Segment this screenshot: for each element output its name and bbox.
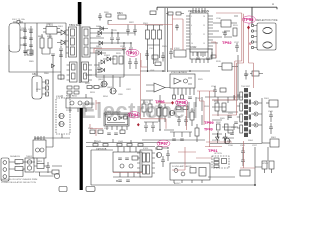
bridge wires: [57, 23, 66, 58]
red wiring layer: [90, 13, 255, 173]
wire x31: [30, 26, 32, 56]
resistor R852: [15, 167, 23, 171]
red wire y128 left: [90, 124, 103, 136]
mid IC950 box: [104, 111, 129, 131]
diode D808: [98, 51, 102, 55]
clutter caps mid: [128, 58, 138, 69]
svg-text:IC902: IC902: [190, 46, 197, 49]
svg-text:22: 22: [203, 34, 205, 36]
svg-text:AUDIO: AUDIO: [174, 182, 181, 185]
TP97 balloon: [157, 140, 170, 147]
svg-text:IC903: IC903: [174, 48, 180, 50]
wire x53 to relay: [46, 138, 53, 147]
wire x42 x50 stubs: [42, 34, 50, 54]
red wire TP93 run: [94, 48, 125, 53]
FBT right rail: [261, 98, 263, 143]
posistor TH801: [25, 158, 34, 172]
red wire CRT inner: [113, 172, 142, 174]
resistor R825: [87, 86, 103, 89]
svg-text:7: 7: [191, 34, 192, 36]
degauss connector P801: [1, 158, 9, 181]
tiny text block bottom left: [1, 178, 38, 184]
AV box: [170, 163, 210, 183]
wire y72 mid: [140, 70, 210, 72]
regulator pin parts: [173, 95, 192, 99]
choke LF801 box: [43, 24, 60, 35]
svg-text:25: 25: [203, 25, 205, 27]
transistor Q802: [59, 121, 65, 126]
FBT top parts: [244, 70, 263, 80]
resistor R851: [15, 160, 23, 164]
capacitor C805: [28, 29, 34, 32]
diode D952: [224, 137, 228, 140]
red wire TP92 stub: [211, 42, 216, 58]
wire y25 cluster: [145, 25, 163, 45]
wire stubs d951: [217, 133, 225, 143]
transistor Q803: [101, 81, 108, 87]
capacitor C811 stubs: [42, 80, 49, 96]
svg-text:TP91: TP91: [208, 148, 218, 153]
component under caps: [240, 170, 250, 176]
wire mains top: [20, 22, 66, 24]
top parts row sound: [155, 147, 169, 150]
resistor R815: [113, 56, 117, 64]
svg-text:10: 10: [191, 43, 193, 45]
resistor R854: [52, 170, 59, 174]
TP95 balloon: [243, 16, 256, 26]
svg-text:28: 28: [203, 16, 205, 18]
wire x61: [60, 50, 62, 80]
diode D951: [216, 137, 220, 140]
capacitor C818: [129, 43, 133, 54]
svg-text:TP92: TP92: [222, 40, 232, 45]
wire top y8: [157, 7, 277, 24]
resistor R805: [24, 50, 33, 55]
svg-text:IC801: IC801: [56, 96, 62, 98]
capacitor C815: [110, 33, 114, 44]
junction y72: [162, 70, 191, 72]
wire mains neutral: [20, 30, 25, 45]
diode D806: [98, 31, 102, 35]
diode D805: [100, 27, 104, 31]
caps right bottom: [241, 147, 245, 166]
HV cap C908: [266, 100, 278, 107]
zener ZD801: [101, 60, 105, 64]
resistor R906: [154, 60, 161, 66]
red diamond TP95: [247, 26, 250, 30]
yoke connector: [256, 20, 278, 50]
svg-text:OPTION: OPTION: [214, 153, 222, 155]
capacitor C903: [161, 52, 165, 62]
capacitor C901: [169, 48, 173, 59]
relay stub wires: [37, 158, 44, 164]
svg-text:SOUND AMP LA4285: SOUND AMP LA4285: [172, 165, 192, 168]
FBT diode D901: [251, 101, 262, 105]
red diamond TP96: [137, 123, 140, 126]
resistor R820: [104, 12, 111, 17]
red wire mid band: [141, 60, 147, 67]
transistor Q851: [54, 173, 59, 178]
svg-text:DEFLECTION YOKE: DEFLECTION YOKE: [256, 20, 278, 22]
photocoupler PC801: [66, 94, 92, 112]
junction x255 y185: [254, 184, 256, 186]
wire y72 to cap: [36, 23, 38, 76]
svg-text:R821: R821: [117, 12, 123, 15]
capacitor C812: [51, 54, 55, 55]
capacitor C816: [116, 33, 120, 44]
capacitor CX803: [23, 44, 27, 45]
svg-text:C805: C805: [28, 29, 34, 31]
red wire TP98 feed: [156, 102, 171, 104]
svg-text:F801 T3.15A: F801 T3.15A: [12, 18, 25, 21]
degauss wires: [9, 158, 62, 177]
mid components between rails: [93, 139, 143, 146]
resistor R816: [119, 56, 123, 64]
wire drops transformer bottom: [96, 69, 120, 88]
svg-text:4: 4: [191, 25, 192, 27]
FBT diode D903: [251, 123, 262, 127]
svg-text:19: 19: [203, 43, 205, 45]
TP94 balloon: [128, 112, 140, 118]
svg-text:TP94: TP94: [129, 113, 140, 118]
red wire vertical x183: [173, 19, 184, 50]
capacitor CX802: [23, 37, 27, 38]
red pin ring yoke: [249, 43, 251, 45]
regulator IC901 box: [170, 71, 195, 95]
wire y140 mid right: [142, 139, 205, 141]
zener ZD802: [101, 68, 105, 72]
wire bus x25: [24, 23, 26, 56]
TP93 balloon: [126, 49, 139, 56]
amp triangle Q905: [146, 83, 170, 92]
transistor Q907: [224, 138, 231, 144]
capacitor C817: [122, 43, 126, 54]
wire y177: [208, 176, 235, 178]
red wire TP95 drop: [249, 29, 254, 88]
isolation bar bottom: [80, 108, 83, 190]
resistor R902: [152, 25, 156, 45]
secondary extra caps: [94, 21, 137, 74]
magenta test point labels: [126, 16, 256, 153]
left of FBT clutter: [212, 100, 238, 134]
svg-text:IC803: IC803: [110, 113, 116, 115]
wire y75 long: [85, 74, 140, 76]
transformer core lines: [79, 24, 81, 83]
svg-text:SP901: SP901: [262, 163, 269, 165]
svg-text:TP96: TP96: [155, 99, 165, 104]
yoke pin headers: [251, 24, 257, 48]
svg-text:RL801: RL801: [34, 138, 41, 140]
ABL resistor network: [217, 95, 239, 138]
svg-text:IC951: IC951: [143, 148, 149, 150]
red wire jungle frame: [212, 13, 244, 115]
mid band x155-168 verticals: [158, 95, 174, 131]
wire y146 mid: [86, 146, 155, 148]
transformer aux winding right: [82, 62, 93, 82]
focus block box: [262, 139, 279, 147]
red wire left mid: [96, 100, 100, 110]
wire x53 vertical: [52, 55, 54, 138]
red wire sound rails: [172, 147, 212, 170]
svg-text:C810: C810: [32, 73, 38, 76]
red wire vertical x172: [172, 15, 174, 50]
pin labels jungle: [191, 16, 205, 45]
svg-text:TP97: TP97: [158, 141, 169, 146]
title stamp box 2: [86, 187, 95, 192]
mid components row y132: [90, 130, 125, 134]
CRT inner box: [113, 147, 142, 172]
svg-text:TP95: TP95: [244, 17, 255, 22]
svg-text:R810 R811: R810 R811: [66, 96, 78, 98]
right column parts: [269, 111, 273, 134]
svg-text:R802: R802: [38, 36, 44, 38]
mid band components x142-165: [141, 100, 167, 132]
secondary rectifier wires: [94, 29, 135, 54]
svg-text:T902 FBT: T902 FBT: [241, 86, 251, 88]
CRT lower clutter: [113, 172, 141, 182]
diode D810: [52, 64, 55, 68]
CRT board big box: [91, 150, 255, 185]
transformer core bar top: [78, 2, 82, 24]
FBT secondary winding: [249, 92, 251, 134]
wire stub x62: [61, 95, 63, 138]
resistor R901: [146, 25, 150, 45]
capacitor CX804: [23, 51, 27, 52]
bus vertical pair: [165, 8, 168, 72]
resistor R807: [58, 55, 64, 79]
svg-text:POWER REGULATOR DEFLECTION: POWER REGULATOR DEFLECTION: [1, 181, 36, 184]
svg-text:1: 1: [191, 16, 192, 18]
capacitor C809: [59, 46, 63, 55]
option box rows: [214, 158, 227, 167]
degauss relay RL801: [33, 136, 46, 158]
wire y132 mid right: [196, 97, 202, 125]
svg-text:TP98: TP98: [176, 100, 187, 105]
transformer secondary winding: [82, 27, 94, 57]
svg-text:ZD801: ZD801: [104, 55, 111, 57]
resistor row under transformer: [66, 86, 79, 98]
resistor R802: [38, 36, 44, 48]
capacitor C806: [29, 38, 33, 39]
svg-text:DEGAUSS: DEGAUSS: [10, 155, 20, 158]
svg-text:IC901 KA78R09: IC901 KA78R09: [171, 71, 188, 74]
svg-text:SAMSUNG CK-5073Z CHASSIS P88M: SAMSUNG CK-5073Z CHASSIS P88M: [1, 178, 38, 181]
IC801 STR control box: [56, 98, 70, 134]
svg-text:TP49: TP49: [204, 128, 213, 132]
capacitor C808: [29, 52, 33, 53]
diode D801: [61, 30, 65, 35]
capacitor C851: [46, 162, 50, 173]
svg-text:C801: C801: [21, 28, 27, 30]
diode D809: [103, 57, 116, 61]
TP98 balloon: [175, 99, 188, 106]
sound transformer T903: [137, 150, 155, 177]
red wire y119: [141, 119, 167, 129]
transformer aux winding left: [67, 62, 78, 82]
resistor R930: [218, 55, 238, 97]
right rail x255: [254, 147, 256, 185]
filter parts x145-162: [145, 45, 159, 72]
red wire B+ top: [108, 24, 173, 26]
node junctions secondary: [111, 32, 131, 43]
dashed option box: [212, 156, 229, 168]
svg-text:LF801: LF801: [46, 24, 53, 27]
transistor Q801: [59, 113, 65, 118]
parts upper x168-186: [150, 11, 184, 31]
main filter capacitor C810: [32, 73, 42, 99]
sound IC box: [190, 46, 212, 63]
resistor R803: [47, 36, 53, 48]
transistor Q804: [110, 88, 117, 94]
control cluster box: [96, 50, 124, 77]
red diamond TP98: [171, 101, 174, 105]
resistor R821: [117, 12, 126, 19]
mid band components x168-205: [169, 106, 199, 142]
diode D807: [99, 41, 103, 45]
title stamp box 1: [59, 187, 67, 192]
svg-text:A: A: [272, 2, 274, 6]
svg-text:CRT PCB: CRT PCB: [96, 148, 107, 151]
wire y138: [35, 137, 70, 139]
clutter under jungle: [196, 52, 216, 59]
capacitor C930: [213, 86, 226, 97]
speaker terminals: [255, 147, 274, 173]
capacitor C807: [29, 45, 33, 46]
transistor Q951: [156, 152, 161, 157]
svg-text:TP99: TP99: [204, 120, 214, 125]
wire y97 top of FBT: [205, 96, 250, 98]
capacitor C814: [98, 13, 102, 21]
wire y143 mid: [86, 142, 160, 144]
caps near sound: [161, 150, 170, 167]
FBT core bars: [245, 88, 247, 137]
transformer primary winding: [66, 27, 77, 57]
resistor R903: [158, 25, 162, 45]
line filter enclosure LF801: [9, 23, 20, 52]
FBT primary winding: [237, 92, 243, 133]
clutter right of jungle: [213, 16, 239, 52]
fuse F801: [12, 18, 25, 23]
svg-text:TP93: TP93: [127, 51, 138, 56]
wire y143 lower right: [210, 143, 262, 145]
jungle IC box: [186, 8, 213, 56]
red wire bottom right: [205, 141, 255, 168]
capacitor CX801: [21, 28, 27, 31]
resistor R853: [37, 164, 44, 169]
wire y72: [9, 45, 61, 72]
svg-text:PC801: PC801: [66, 110, 73, 112]
value label clutter: [10, 18, 277, 185]
small box IC tone: [174, 50, 186, 57]
FBT diode D902: [251, 112, 262, 116]
diode D802: [61, 40, 65, 45]
red wire regulator out: [187, 91, 216, 147]
svg-text:TH801: TH801: [26, 156, 33, 158]
red wire x140 drop: [140, 53, 142, 119]
